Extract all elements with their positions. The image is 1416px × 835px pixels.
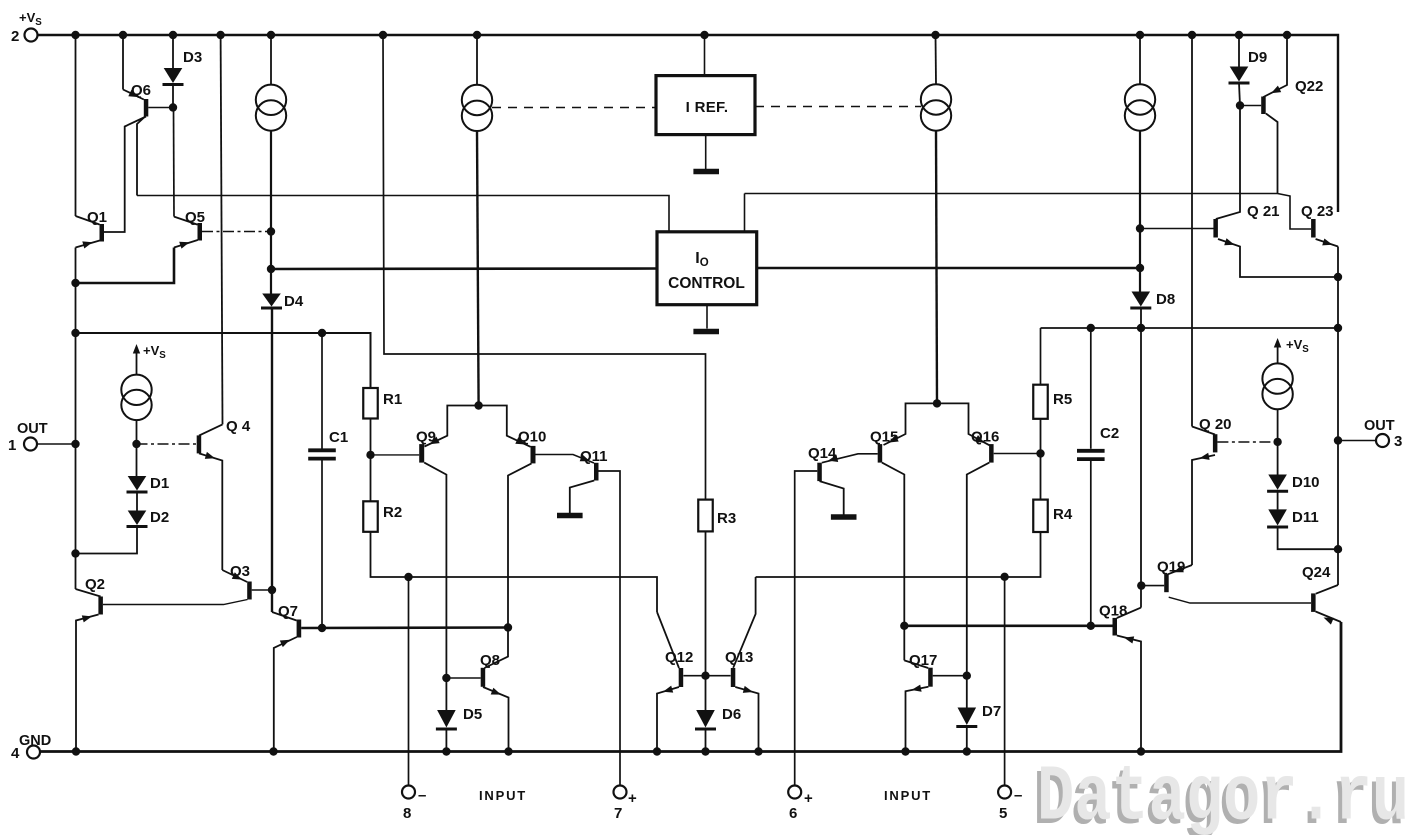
node gnd-Q18 xyxy=(1137,747,1145,755)
wire C2 top lead xyxy=(1090,328,1092,449)
arrow +Vs CS5 xyxy=(133,344,140,354)
node gnd-Q13 xyxy=(754,747,762,755)
wire bias from rail to R3 xyxy=(383,35,706,500)
node Q17 base node xyxy=(963,672,971,680)
current source CS6 xyxy=(1262,363,1292,409)
resistor R5 xyxy=(1033,385,1048,419)
node rail-CS1 xyxy=(267,31,275,39)
wire D3 cathode to Q6 base node xyxy=(172,85,174,108)
transistor Q10 xyxy=(484,446,535,668)
wire CS1 to D4 xyxy=(270,131,272,294)
pin 7 (+IN) xyxy=(614,786,627,799)
node rail-CS3 xyxy=(931,31,939,39)
wire CS6 to Q20 base node xyxy=(1277,409,1279,474)
arrow Q16 emitter xyxy=(974,435,984,443)
watermark Datagor.ru xyxy=(1033,754,1409,835)
diode D7 xyxy=(956,708,977,727)
svg-text:Q 20: Q 20 xyxy=(1199,416,1232,433)
wire GND rail xyxy=(40,622,1341,752)
node Q7 base / comp node xyxy=(504,623,512,631)
node rail-CS2 xyxy=(473,31,481,39)
svg-text:R1: R1 xyxy=(383,391,402,408)
node rail-D3 xyxy=(169,31,177,39)
transistor Q19 xyxy=(1164,565,1311,603)
wire CS2 tail xyxy=(477,131,479,406)
transistor Q18 xyxy=(1113,608,1142,752)
node Q9 base node xyxy=(366,451,374,459)
current source CS1 xyxy=(256,85,286,131)
diode D9 xyxy=(1229,67,1250,84)
svg-text:OUT: OUT xyxy=(17,421,48,437)
svg-text:Q8: Q8 xyxy=(480,652,500,669)
svg-text:CONTROL: CONTROL xyxy=(668,275,745,292)
wire Q8 base xyxy=(446,677,480,679)
node y328 right node xyxy=(1334,324,1342,332)
svg-text:Q6: Q6 xyxy=(131,82,151,99)
transistor Q3 xyxy=(103,570,252,605)
transistor Q8 xyxy=(481,668,509,752)
wire OUT3 xyxy=(1338,440,1376,442)
resistor R4 xyxy=(1033,500,1048,532)
node OUT1 node xyxy=(71,440,79,448)
transistor Q1 xyxy=(76,216,105,249)
ground Q11 base ground xyxy=(557,513,583,519)
wire control net left (long) xyxy=(137,196,669,232)
svg-text:Q 21: Q 21 xyxy=(1247,203,1280,220)
arrow Q11 emitter xyxy=(580,454,590,461)
wire D1-D2 xyxy=(136,492,138,511)
node gnd-Q17 xyxy=(901,747,909,755)
transistor Q6 xyxy=(123,35,148,117)
node rail-Q6 xyxy=(119,31,127,39)
svg-text:Q5: Q5 xyxy=(185,209,205,226)
svg-text:6: 6 xyxy=(789,805,797,822)
pin 4 (GND) xyxy=(27,746,40,759)
svg-text:OUT: OUT xyxy=(1364,418,1395,434)
svg-text:GND: GND xyxy=(19,733,51,749)
wire CS5 +Vs stub xyxy=(136,351,138,375)
wire tail to Q16 emitter xyxy=(937,403,990,445)
wire tail to Q15 emitter xyxy=(884,403,938,445)
wire right emitter column xyxy=(1337,247,1339,586)
svg-text:Q 4: Q 4 xyxy=(226,418,251,435)
wire Q19 base xyxy=(1141,585,1164,587)
node rail-Q1 xyxy=(71,31,79,39)
svg-text:D6: D6 xyxy=(722,706,741,723)
node Q1/Q5 emitters xyxy=(71,279,79,287)
pin 3 (OUT) xyxy=(1376,434,1389,447)
capacitor C1 xyxy=(308,450,336,458)
wire tail to Q9 emitter xyxy=(425,406,479,447)
wire C1 top lead xyxy=(321,333,323,449)
node Io control left node xyxy=(267,265,275,273)
wire D9 cathode xyxy=(1239,83,1240,106)
node Q20 base node xyxy=(1273,438,1281,446)
node Q22 base node xyxy=(1236,101,1244,109)
diode D8 xyxy=(1130,292,1151,309)
node Q9/Q10 tail xyxy=(474,401,482,409)
node rail-D9 xyxy=(1235,31,1243,39)
pin 1 (OUT) xyxy=(24,438,37,451)
wire tail to Q10 emitter xyxy=(479,406,531,447)
svg-text:D4: D4 xyxy=(284,293,304,310)
wire compensation wire y626 xyxy=(904,624,1112,627)
node Q19 base node xyxy=(1137,581,1145,589)
svg-text:Q7: Q7 xyxy=(278,603,298,620)
wire Q17 base xyxy=(933,675,967,677)
wire D7 anode xyxy=(966,676,968,708)
svg-text:D8: D8 xyxy=(1156,291,1175,308)
transistor Q20 xyxy=(1192,427,1217,566)
node Q3 base node xyxy=(268,586,276,594)
wire D6 cathode xyxy=(705,729,707,752)
arrow Q9 emitter xyxy=(430,437,440,445)
wire pin 5 lead xyxy=(1004,577,1006,786)
svg-text:D5: D5 xyxy=(463,706,482,723)
svg-text:Q18: Q18 xyxy=(1099,603,1127,620)
wire CS5 to Q4 base node xyxy=(136,420,138,476)
svg-text:C1: C1 xyxy=(329,429,348,446)
node minus input node right xyxy=(1000,573,1008,581)
diode D2 xyxy=(127,511,148,527)
wire CS6 +Vs stub xyxy=(1277,345,1279,364)
node C1 bottom node xyxy=(318,624,326,632)
transistor Q15 xyxy=(878,444,905,660)
wire R4 to Q13 collector xyxy=(756,532,1041,577)
svg-text:D10: D10 xyxy=(1292,474,1320,491)
svg-text:I REF.: I REF. xyxy=(686,99,729,116)
svg-text:D7: D7 xyxy=(982,703,1001,720)
svg-text:R3: R3 xyxy=(717,510,736,527)
node Q8 base node xyxy=(442,674,450,682)
svg-text:Q14: Q14 xyxy=(808,445,837,462)
node Q4 base node xyxy=(132,440,140,448)
svg-text:Q12: Q12 xyxy=(665,649,693,666)
svg-text:Q13: Q13 xyxy=(725,649,753,666)
node Q21 base node xyxy=(1136,224,1144,232)
wire I REF ground lead xyxy=(705,135,707,170)
wire Q5 emitter xyxy=(77,248,175,284)
svg-text:Q16: Q16 xyxy=(971,429,999,446)
arrow +Vs CS6 xyxy=(1274,338,1282,348)
svg-text:R5: R5 xyxy=(1053,391,1072,408)
node gnd-Q8 xyxy=(504,747,512,755)
node D2 return node xyxy=(71,549,79,557)
resistor R1 xyxy=(363,388,378,419)
wire CS4 to D8 xyxy=(1139,131,1141,292)
wire R2 to Q12 collector xyxy=(371,532,658,612)
node gnd-D7 xyxy=(963,747,971,755)
svg-text:D3: D3 xyxy=(183,49,202,66)
svg-text:7: 7 xyxy=(614,805,622,822)
svg-text:1: 1 xyxy=(8,437,16,454)
current source CS4 xyxy=(1125,84,1155,130)
wire D5 anode xyxy=(445,678,447,710)
node Q16 base node xyxy=(1036,449,1044,457)
node OUT3 node xyxy=(1334,436,1342,444)
svg-text:INPUT: INPUT xyxy=(884,788,932,803)
wire CS3 tail xyxy=(936,131,937,403)
wire Q5 base xyxy=(202,231,271,233)
node Q15 collector comp node xyxy=(900,622,908,630)
node Io control right node xyxy=(1136,264,1144,272)
wire Q6 collector to Q1 base xyxy=(104,117,146,233)
node D8 node y328 xyxy=(1137,324,1145,332)
ground I REF ground xyxy=(693,169,719,175)
wire x1192 column from rail xyxy=(1191,35,1193,427)
arrow Q15 emitter xyxy=(889,435,899,443)
node rail-CS4 xyxy=(1136,31,1144,39)
wire x222 column from rail xyxy=(221,35,223,424)
node C2 top node xyxy=(1087,324,1095,332)
wire CS4 feed xyxy=(1139,35,1141,85)
node gnd-Q7 xyxy=(269,747,277,755)
svg-text:Q10: Q10 xyxy=(518,429,546,446)
svg-text:+: + xyxy=(804,790,813,807)
wire control net right (long) xyxy=(745,193,1278,195)
block Io CONTROL xyxy=(657,232,757,305)
transistor Q2 xyxy=(76,589,103,752)
wire Q3 base xyxy=(252,589,272,591)
ground Q14 base ground xyxy=(831,514,857,520)
wire D4 cathode to Q7 collector xyxy=(271,308,273,612)
wire C1 bottom lead xyxy=(321,460,323,628)
current source CS5 xyxy=(121,375,151,421)
node rail-x1192 xyxy=(1188,31,1196,39)
pin 8 (-IN) xyxy=(402,786,415,799)
wire CS2 feed xyxy=(476,35,478,85)
node D11 return node xyxy=(1334,545,1342,553)
wire Q12/Q13 bases xyxy=(683,675,730,677)
svg-text:3: 3 xyxy=(1394,433,1402,450)
transistor Q13 xyxy=(731,577,759,752)
svg-text:R2: R2 xyxy=(383,504,402,521)
capacitor C2 xyxy=(1077,451,1105,459)
transistor Q17 xyxy=(904,660,932,751)
svg-text:Q3: Q3 xyxy=(230,563,250,580)
wire CS1 feed xyxy=(270,35,272,85)
current source CS3 xyxy=(921,84,951,130)
node rail-x383 xyxy=(379,31,387,39)
node rail-Q22 xyxy=(1283,31,1291,39)
svg-text:5: 5 xyxy=(999,805,1007,822)
wire Q22 base xyxy=(1240,105,1261,107)
svg-text:Q22: Q22 xyxy=(1295,78,1323,95)
wire R5-R4 junction xyxy=(1040,419,1042,500)
svg-text:Q11: Q11 xyxy=(580,448,608,465)
node Q15/Q16 tail xyxy=(933,399,941,407)
wire D10-D11 xyxy=(1277,491,1279,509)
svg-text:2: 2 xyxy=(11,28,19,45)
svg-text:Q9: Q9 xyxy=(416,429,436,446)
node Q5 base node xyxy=(267,227,275,235)
diode D4 xyxy=(261,294,282,309)
node C1 top node xyxy=(318,329,326,337)
wire R5 top lead xyxy=(1040,328,1042,385)
diode D3 xyxy=(163,68,184,85)
transistor Q12 xyxy=(657,612,683,752)
pin 6 (+IN) xyxy=(788,786,801,799)
wire OUT1 xyxy=(37,443,76,445)
diode D1 xyxy=(127,476,148,492)
wire D2 return xyxy=(76,527,138,554)
svg-text:Q24: Q24 xyxy=(1302,564,1331,581)
svg-text:C2: C2 xyxy=(1100,425,1119,442)
svg-text:INPUT: INPUT xyxy=(479,788,527,803)
svg-text:D9: D9 xyxy=(1248,49,1267,66)
resistor R2 xyxy=(363,501,378,532)
wire bias wire y333 xyxy=(76,333,371,388)
svg-text:Q17: Q17 xyxy=(909,652,937,669)
current source CS2 xyxy=(462,85,492,131)
node gnd-D6 xyxy=(701,747,709,755)
wire D7 cathode xyxy=(966,727,968,752)
node gnd-Q2 xyxy=(72,747,80,755)
wire Io CONTROL ground lead xyxy=(706,305,708,329)
wire Q16 base xyxy=(994,453,1041,455)
svg-text:D1: D1 xyxy=(150,475,169,492)
node gnd-Q12 xyxy=(653,747,661,755)
wire D11 return xyxy=(1278,527,1338,549)
diode D10 xyxy=(1267,475,1288,492)
transistor Q14 xyxy=(795,454,878,786)
svg-text:+: + xyxy=(628,790,637,807)
node input pair base node xyxy=(701,672,709,680)
transistor Q5 xyxy=(174,217,202,249)
wire Q6 collector to control net xyxy=(137,118,144,196)
wire D5 cathode xyxy=(445,729,447,752)
transistor Q21 xyxy=(1213,106,1338,278)
wire Q1 emitter column xyxy=(75,248,77,590)
node minus input node xyxy=(404,573,412,581)
svg-text:Datagor.ru: Datagor.ru xyxy=(1037,754,1409,835)
wire Q1 collector from rail xyxy=(75,35,77,216)
wire R1-R2 junction xyxy=(370,419,372,502)
transistor Q23 xyxy=(1278,194,1339,247)
transistor Q22 xyxy=(1261,35,1287,194)
diode D5 xyxy=(436,710,457,729)
svg-text:Q15: Q15 xyxy=(870,429,898,446)
svg-text:–: – xyxy=(1014,787,1022,804)
wire D3 anode xyxy=(172,35,174,68)
wire I REF feed xyxy=(704,35,706,76)
wire Q9 base xyxy=(371,454,420,456)
wire R3 to input pair bases xyxy=(705,531,707,675)
svg-text:Q 23: Q 23 xyxy=(1301,203,1334,220)
wire bias wire y328 xyxy=(1041,327,1339,329)
wire Q10 base / Q11 emitter xyxy=(536,455,595,464)
ground Io CONTROL ground xyxy=(693,329,719,335)
svg-text:R4: R4 xyxy=(1053,506,1073,523)
wire dashed CS2 to I REF xyxy=(492,107,656,109)
node C2 bottom node xyxy=(1087,622,1095,630)
wire Q6 base xyxy=(148,107,173,109)
svg-text:4: 4 xyxy=(11,745,20,762)
wire D3 node down to Q5 collector xyxy=(173,108,176,217)
transistor Q4 xyxy=(197,424,223,570)
wire C2 bottom lead xyxy=(1090,461,1092,626)
wire pin 8 lead xyxy=(408,577,410,786)
node Q21/Q23 emitters xyxy=(1334,273,1342,281)
wire D9 anode xyxy=(1238,35,1240,67)
transistor Q24 xyxy=(1311,585,1341,625)
node Q6 base node xyxy=(169,103,177,111)
wire control net right drop xyxy=(744,194,746,232)
svg-text:8: 8 xyxy=(403,805,411,822)
wire Q20 base xyxy=(1217,441,1277,443)
svg-text:Q19: Q19 xyxy=(1157,559,1185,576)
transistor Q11 xyxy=(570,463,620,786)
wire CS3 feed xyxy=(935,35,938,85)
transistor Q9 xyxy=(419,444,446,678)
svg-text:D11: D11 xyxy=(1292,509,1319,526)
wire compensation wire y627 xyxy=(301,626,508,629)
pin 5 (-IN) xyxy=(998,786,1011,799)
wire Io control right xyxy=(757,267,1140,270)
wire +Vs top rail xyxy=(38,35,1339,212)
svg-text:D2: D2 xyxy=(150,509,169,526)
wire dashed I REF to CS3 xyxy=(755,106,921,108)
pin 2 (+Vs) xyxy=(25,29,38,42)
wire D6 anode xyxy=(705,676,707,710)
svg-text:Q2: Q2 xyxy=(85,576,105,593)
svg-text:Q1: Q1 xyxy=(87,209,107,226)
svg-text:–: – xyxy=(418,787,426,804)
node rail-IREF xyxy=(700,31,708,39)
wire Q4 base xyxy=(137,443,197,445)
transistor Q16 xyxy=(967,444,994,676)
block I REF xyxy=(656,76,755,135)
wire Q21 base xyxy=(1140,228,1214,230)
arrow Q10 emitter xyxy=(515,437,525,444)
wire Io control left xyxy=(271,267,657,270)
node rail-x222 xyxy=(216,31,224,39)
diode D11 xyxy=(1267,509,1288,527)
transistor Q7 xyxy=(272,612,301,752)
node gnd-D5 xyxy=(442,747,450,755)
resistor R3 xyxy=(698,500,713,532)
node out column y333 xyxy=(71,329,79,337)
diode D6 xyxy=(695,710,716,729)
wire D8 cathode down xyxy=(1140,308,1142,608)
